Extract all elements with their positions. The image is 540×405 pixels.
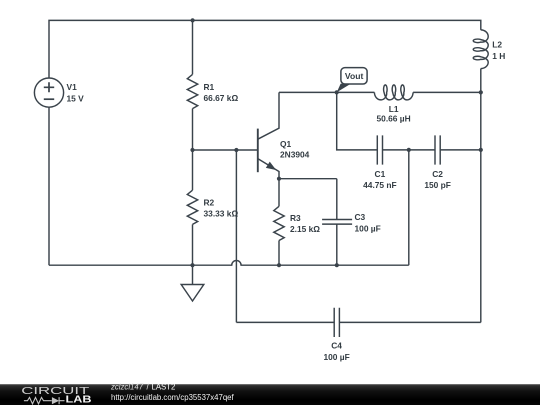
capacitor C4 [334,308,339,337]
svg-text:2.15 kΩ: 2.15 kΩ [290,224,320,234]
svg-text:L2: L2 [492,40,502,50]
svg-text:V1: V1 [67,82,78,92]
Vout flag [337,83,352,92]
svg-text:100 µF: 100 µF [355,223,381,233]
transistor Q1 [257,129,259,173]
wire: R1 top lead [192,20,194,74]
resistor R2 [187,190,197,224]
wire: C4 row [236,321,480,323]
svg-text:15 V: 15 V [67,93,85,103]
wire: collector to Vout node and L1 [279,91,374,93]
wire: L2 bottom to right rail down to C4 row [480,69,482,323]
wire: base wire [193,149,258,151]
resistor R3 [274,206,284,240]
svg-text:50.66 µH: 50.66 µH [377,114,411,124]
wire: C3 top lead [336,179,338,220]
wire: C1 to C2 [383,149,436,151]
svg-text:1 H: 1 H [492,51,505,61]
wire: top rail from V1 to L2 [49,20,481,78]
svg-text:zclzcl147: zclzcl147 [110,383,144,392]
svg-text:C1: C1 [375,169,386,179]
wire: vertical from base junction down to C4 row [235,150,237,322]
wire: L1 to right rail [413,91,481,93]
svg-text:LAB: LAB [66,395,92,405]
svg-text:L1: L1 [389,104,399,114]
wire: left rail V1 bottom to bottom row [48,107,50,265]
inductor L1 [374,85,413,100]
svg-text:44.75 nF: 44.75 nF [363,180,397,190]
svg-text:R2: R2 [204,197,215,207]
wire: R2 bottom lead [192,224,194,265]
svg-text:C2: C2 [432,169,443,179]
wire: C2 to right rail [440,149,481,151]
wire: emitter row to C3 [279,178,337,180]
svg-text:R3: R3 [290,213,301,223]
capacitor C1 [377,135,382,164]
svg-text:R1: R1 [204,82,215,92]
capacitor C3 [322,220,352,225]
svg-text:http://circuitlab.com/cp35537x: http://circuitlab.com/cp35537x47qef [111,393,234,402]
svg-text:Vout: Vout [345,71,364,81]
wire: emitter down to R3 [278,179,280,207]
svg-text:C4: C4 [331,341,342,351]
voltage source V1 [34,78,63,107]
wire: bottom row with hop over vertical [49,261,409,266]
wire: R3 bottom lead [278,241,280,266]
ground [192,265,194,284]
capacitor C2 [435,135,440,164]
wire: C1-C2 junction down to bottom row [408,150,410,265]
svg-text:150 pF: 150 pF [424,180,451,190]
svg-text:LAST2: LAST2 [152,383,176,392]
wire: C3 bottom lead [336,224,338,265]
inductor L2 [473,30,488,69]
svg-text:2N3904: 2N3904 [280,150,310,160]
wire: Vout node down to cap row [337,92,378,149]
svg-text:C3: C3 [355,212,366,222]
wire: R1 bottom to base row to R2 top [192,109,194,191]
svg-text:66.67 kΩ: 66.67 kΩ [204,93,239,103]
resistor R1 [187,74,197,108]
svg-text:33.33 kΩ: 33.33 kΩ [204,209,239,219]
svg-text:100 µF: 100 µF [323,352,349,362]
svg-text:Q1: Q1 [280,139,292,149]
